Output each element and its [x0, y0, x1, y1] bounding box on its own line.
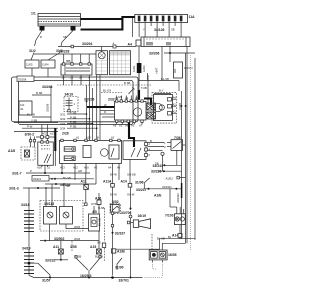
sensor 7/36: [148, 136, 183, 150]
svg-text:200Z: 200Z: [74, 237, 80, 241]
connector A11 bottom: [53, 241, 63, 260]
svg-text:33/126: 33/126: [154, 28, 164, 32]
suppressor 34/19: [64, 93, 78, 112]
svg-text:A4: A4: [173, 96, 177, 100]
lamp pair 16/35: [149, 250, 176, 262]
svg-text:3/32: 3/32: [60, 117, 66, 121]
routing box 33/208 outer: [12, 76, 139, 125]
node 33/502: [40, 237, 99, 242]
connector A1/B: [112, 249, 126, 254]
wire horizontal y80.5: [139, 73, 179, 81]
svg-text:3/34: 3/34: [60, 127, 66, 131]
wire thick elbow right of 2/28: [129, 122, 134, 147]
wire 7/36 to bus: [183, 144, 186, 146]
wire 11/04 down to routing box: [47, 68, 49, 77]
node 33/2302 vertical: [170, 183, 182, 207]
svg-text:33/204: 33/204: [82, 42, 92, 46]
node 33/226 right: [151, 170, 182, 174]
node 33/206 and wire to right bus: [149, 52, 195, 56]
connector A11A: [103, 172, 117, 275]
connector 11/05: [25, 60, 39, 68]
svg-text:GN-SB: GN-SB: [127, 172, 136, 176]
svg-text:31/2: 31/2: [29, 49, 36, 53]
svg-text:A1: A1: [173, 110, 177, 114]
ignition position table: [96, 51, 131, 75]
svg-text:A12: A12: [73, 166, 78, 170]
junction horn ground on bus: [130, 277, 132, 279]
wire stubs strip to 33/206 row: [161, 47, 163, 54]
svg-text:A14: A14: [121, 179, 127, 183]
connector 2/12: [91, 202, 105, 210]
svg-text:33/706: 33/706: [121, 211, 131, 215]
node 33/706: [121, 208, 133, 278]
connector A14 bottom: [172, 234, 182, 239]
node 33/226 bundle: [84, 75, 100, 141]
wire bus elbows bottom right: [116, 237, 195, 251]
shield symbol pen: [129, 89, 134, 95]
svg-text:31/57: 31/57: [42, 279, 51, 283]
svg-text:11/04: 11/04: [42, 63, 49, 67]
wire ignition pin 15 drop: [71, 75, 73, 85]
svg-text:11/03: 11/03: [142, 65, 146, 72]
wire dotted from 16/35 stems: [153, 262, 158, 269]
svg-text:A: A: [113, 42, 115, 46]
lamp unit 7/103: [165, 207, 185, 234]
switch box left: [38, 141, 54, 166]
connector A16 lower: [95, 193, 101, 214]
wire label BL-SB routing: [27, 113, 51, 118]
wire fuse pin down x139: [138, 26, 140, 37]
svg-text:A1/E2: A1/E2: [166, 176, 174, 180]
svg-text:A11A: A11A: [103, 179, 112, 183]
svg-text:P-SB: P-SB: [75, 255, 81, 259]
suppressor 34/19 bottom: [22, 247, 34, 278]
wire battery negative to node 31/2: [35, 31, 43, 47]
svg-text:33/701: 33/701: [119, 279, 129, 283]
svg-text:R: R: [104, 110, 106, 114]
wire drop to 34/18: [28, 188, 30, 208]
svg-text:33/2302: 33/2302: [176, 193, 180, 203]
node 3/34: [60, 125, 97, 131]
svg-text:4/5: 4/5: [92, 210, 97, 214]
svg-text:33/232: 33/232: [45, 259, 55, 263]
svg-text:3/55: 3/55: [70, 245, 77, 249]
svg-text:Y: Y: [143, 28, 145, 32]
svg-text:/11: /11: [20, 107, 24, 111]
svg-text:SB: SB: [63, 35, 67, 39]
wire vertical x148 from bar to hatched connector: [141, 75, 148, 103]
svg-text:3/31: 3/31: [60, 112, 66, 116]
svg-text:SB: SB: [66, 184, 70, 188]
svg-text:A5: A5: [113, 124, 117, 128]
svg-text:33/2301: 33/2301: [162, 185, 172, 189]
ignition switch 3/1: [61, 60, 92, 76]
svg-text:34/19: 34/19: [22, 247, 31, 251]
wire 11DYN down to motor: [178, 81, 180, 92]
wire 34/19 to 31/57: [30, 263, 50, 277]
svg-text:SB: SB: [171, 28, 175, 32]
svg-text:16/19: 16/19: [138, 214, 147, 218]
svg-text:33/221: 33/221: [33, 177, 42, 181]
svg-text:A15: A15: [90, 245, 96, 249]
wire relay feed thick left: [87, 106, 115, 108]
svg-text:GR: GR: [78, 169, 82, 173]
svg-text:BL-SB: BL-SB: [63, 176, 71, 180]
svg-text:P-W: P-W: [27, 124, 33, 128]
wire fuse pin down x181: [180, 26, 182, 37]
node A1/E2: [166, 176, 186, 180]
wire ignition pin X drop: [89, 75, 91, 85]
wire row with pins y136.5: [36, 136, 56, 139]
svg-text:+BAT: +BAT: [155, 67, 159, 74]
wire label P-W lower: [14, 124, 58, 131]
wire label Y-SB routing: [14, 119, 58, 123]
svg-text:15/113: 15/113: [44, 202, 54, 206]
motor assembly dashed box: [152, 89, 177, 124]
connector 11DYN: [170, 53, 193, 78]
svg-text:BL-SB: BL-SB: [95, 255, 103, 259]
svg-text:T-0B: T-0B: [141, 86, 147, 90]
svg-text:34/19: 34/19: [65, 93, 74, 97]
svg-text:P-SB: P-SB: [70, 111, 76, 115]
bus right dotted: [190, 55, 192, 251]
svg-text:1/1: 1/1: [31, 12, 36, 16]
wire 2002 to 4/5: [66, 225, 89, 229]
node 33/2301: [162, 185, 177, 190]
svg-text:31: 31: [47, 166, 50, 170]
wire 31/2 to connector 11/05: [31, 53, 34, 61]
pin on A11A wire lower: [111, 225, 113, 227]
node 16/29:3: [75, 255, 103, 279]
wire fuse pin down x169: [168, 26, 170, 37]
wire dashed BL-GN: [101, 89, 122, 93]
wire stems 15/113 down: [49, 224, 51, 241]
svg-text:2/32: 2/32: [108, 98, 115, 102]
wire relay left 3: [100, 113, 115, 115]
svg-text:200Z: 200Z: [74, 225, 80, 229]
connector hatched pair: [147, 103, 156, 119]
node 3/32: [60, 115, 90, 121]
svg-text:A16: A16: [37, 166, 42, 170]
svg-text:A14: A14: [172, 234, 178, 238]
svg-text:SB: SB: [97, 241, 101, 245]
wire +BAT vertical: [161, 53, 163, 81]
svg-text:B: B: [150, 139, 152, 143]
svg-text:31/96: 31/96: [135, 180, 144, 184]
connector A4: [128, 40, 142, 46]
ground bus wire: [34, 276, 142, 279]
svg-text:3/30-2: 3/30-2: [25, 133, 35, 137]
junction dots on bus: [181, 105, 183, 107]
svg-text:A1/E: A1/E: [154, 193, 162, 197]
connector 110/11: [19, 101, 32, 115]
svg-text:GN-W: GN-W: [127, 192, 135, 196]
wire drops to 15/113: [45, 188, 47, 207]
svg-text:BL: BL: [168, 235, 172, 239]
node 3/33: [60, 120, 93, 126]
bus right outer: [194, 58, 196, 240]
svg-text:A1/B: A1/B: [117, 250, 125, 254]
svg-text:11D: 11D: [173, 69, 177, 74]
wire 7/36 bottom drop: [176, 150, 178, 165]
svg-text:3/52: 3/52: [112, 200, 119, 204]
wire dashed border x152: [151, 234, 153, 249]
svg-text:B-SB: B-SB: [124, 81, 130, 85]
svg-text:4/33: 4/33: [42, 132, 48, 136]
svg-text:A1: A1: [76, 136, 80, 140]
wire thick battery feed lower: [81, 17, 135, 30]
wire B-SB routing upper: [32, 91, 51, 95]
svg-text:P-SB: P-SB: [70, 125, 76, 129]
svg-text:33/208: 33/208: [18, 78, 27, 82]
svg-text:P-SB: P-SB: [70, 115, 76, 119]
wire stub to key symbol: [101, 47, 103, 53]
wire stubs ignition top pins: [63, 54, 65, 63]
svg-text:11A: 11A: [189, 15, 196, 19]
node 33/237: [136, 188, 182, 192]
wire 31/6 to connector 11/04: [48, 53, 60, 61]
svg-text:P: P: [30, 169, 32, 173]
connector 11/01-11/03 thick bar: [132, 63, 146, 73]
svg-text:A4: A4: [128, 42, 132, 46]
node 3/55: [70, 241, 77, 252]
node 33/226 lower: [45, 183, 96, 187]
svg-text:3/31-3: 3/31-3: [9, 187, 19, 191]
bus right line thin x181.5: [181, 91, 183, 239]
relay 2/28: [60, 139, 122, 163]
horn 16/19: [127, 214, 150, 229]
svg-text:A1: A1: [119, 124, 123, 128]
pin labels under 2/28: [37, 166, 121, 170]
wire thick drop x55.3: [54, 128, 56, 151]
wire ignition pin 30 drop: [63, 75, 65, 85]
wire fuse feed to connector bar: [138, 47, 140, 64]
svg-text:33/206: 33/206: [149, 52, 159, 56]
label row 3/30-2 4/33 A13: [25, 132, 56, 148]
svg-text:11/01: 11/01: [132, 65, 136, 72]
relay 2/32: [108, 96, 146, 128]
wire dashed boundary x104.4: [103, 208, 105, 242]
svg-text:A4: A4: [125, 96, 129, 100]
wire thin continuation x55.3: [54, 151, 56, 166]
svg-text:BL-SB: BL-SB: [27, 113, 35, 117]
svg-text:33/206: 33/206: [46, 103, 50, 112]
svg-text:GN: GN: [118, 95, 122, 99]
wire dashed return right: [142, 277, 162, 279]
wire thick battery feed upper to fuse box 11A: [81, 18, 123, 20]
wire 11/05 down to routing box: [31, 68, 33, 77]
wire drops from 2/28 bottom: [62, 159, 130, 184]
switch assembly box right: [123, 141, 148, 160]
svg-text:33/226: 33/226: [151, 170, 161, 174]
node 3/31-7: [12, 172, 90, 176]
svg-text:BY-W: BY-W: [110, 192, 117, 196]
wire long dashed y85: [57, 81, 152, 85]
assembly 15/113 dashed: [40, 201, 83, 232]
switch 31/96: [135, 178, 150, 189]
node 33/232: [45, 259, 68, 263]
battery 1/1: [31, 12, 81, 31]
svg-text:BL-GN: BL-GN: [103, 89, 111, 93]
wire stubs below switch box: [41, 165, 43, 167]
svg-text:110: 110: [20, 103, 25, 107]
svg-text:3/1: 3/1: [66, 60, 71, 64]
svg-text:A2: A2: [173, 103, 177, 107]
svg-text:P-SB: P-SB: [70, 120, 76, 124]
wire run 33/204 to A4: [58, 46, 136, 48]
svg-text:34/18: 34/18: [21, 203, 30, 207]
svg-text:A11: A11: [53, 245, 59, 249]
svg-text:3/33: 3/33: [60, 122, 66, 126]
wire feed bar to relay pin: [138, 73, 140, 90]
svg-text:A4: A4: [108, 166, 112, 170]
svg-text:BY-W: BY-W: [110, 172, 117, 176]
svg-text:B-Y: B-Y: [159, 89, 164, 93]
svg-text:A3: A3: [131, 124, 135, 128]
svg-text:B-SB: B-SB: [36, 91, 42, 95]
wire bar down to bus y80.5: [147, 73, 149, 81]
connector A1/8: [8, 147, 35, 160]
svg-text:33/502: 33/502: [54, 237, 64, 241]
svg-text:2/28: 2/28: [62, 132, 69, 136]
node 33/221: [32, 176, 94, 189]
svg-text:11/05: 11/05: [26, 63, 33, 67]
connector A11 mid: [81, 173, 89, 206]
ground connector small: [102, 243, 105, 247]
svg-text:31/4B: 31/4B: [178, 103, 182, 110]
node 3/31: [60, 111, 87, 117]
wire drops from routing box to 2/28: [42, 125, 48, 143]
connector 11/04: [41, 60, 55, 68]
connector A14: [121, 172, 136, 208]
wire battery positive to node 31/6: [61, 31, 73, 47]
wire vertical x51: [50, 86, 52, 123]
bus right pair: [185, 53, 187, 243]
wire fuse pin down x145: [144, 26, 146, 37]
wire relay left 2: [100, 110, 115, 112]
svg-text:A13: A13: [60, 166, 65, 170]
node 3/31-3: [9, 187, 60, 191]
svg-text:31/90: 31/90: [115, 266, 124, 270]
svg-text:7/103: 7/103: [165, 214, 174, 218]
wire thick elbow to hatched connector: [144, 99, 151, 106]
connector A15: [90, 231, 101, 254]
svg-text:A7: A7: [139, 124, 143, 128]
wire junction drop: [162, 155, 164, 171]
pin on A11A wire: [111, 212, 113, 214]
svg-text:Y-SB: Y-SB: [31, 119, 37, 123]
svg-text:3/31-7: 3/31-7: [12, 172, 22, 176]
fuse box 11A: [135, 15, 195, 27]
svg-text:SB: SB: [155, 161, 159, 165]
svg-text:A10: A10: [84, 166, 89, 170]
svg-text:16/35: 16/35: [168, 253, 177, 257]
wire ignition pin 50 drop: [80, 75, 82, 85]
suppressor 34/18: [21, 203, 34, 250]
junction circle node: [161, 152, 164, 155]
svg-text:33/228: 33/228: [59, 50, 69, 54]
svg-text:R: R: [40, 35, 42, 39]
svg-text:A1/8: A1/8: [8, 149, 15, 153]
junction strip 33/126: [141, 37, 190, 47]
switch 31/90: [115, 258, 124, 270]
wire fuse pin down x157: [156, 26, 158, 37]
relay 4/5: [89, 206, 100, 231]
node 33/197: [112, 232, 126, 236]
assembly 3/52: [110, 200, 121, 214]
wire 33/228 run to ignition: [34, 53, 96, 55]
pin A on 33/204 wire: [71, 42, 116, 49]
svg-text:BL-SB: BL-SB: [98, 218, 102, 226]
wire relay left 4: [102, 116, 115, 118]
svg-text:33/197: 33/197: [115, 232, 125, 236]
